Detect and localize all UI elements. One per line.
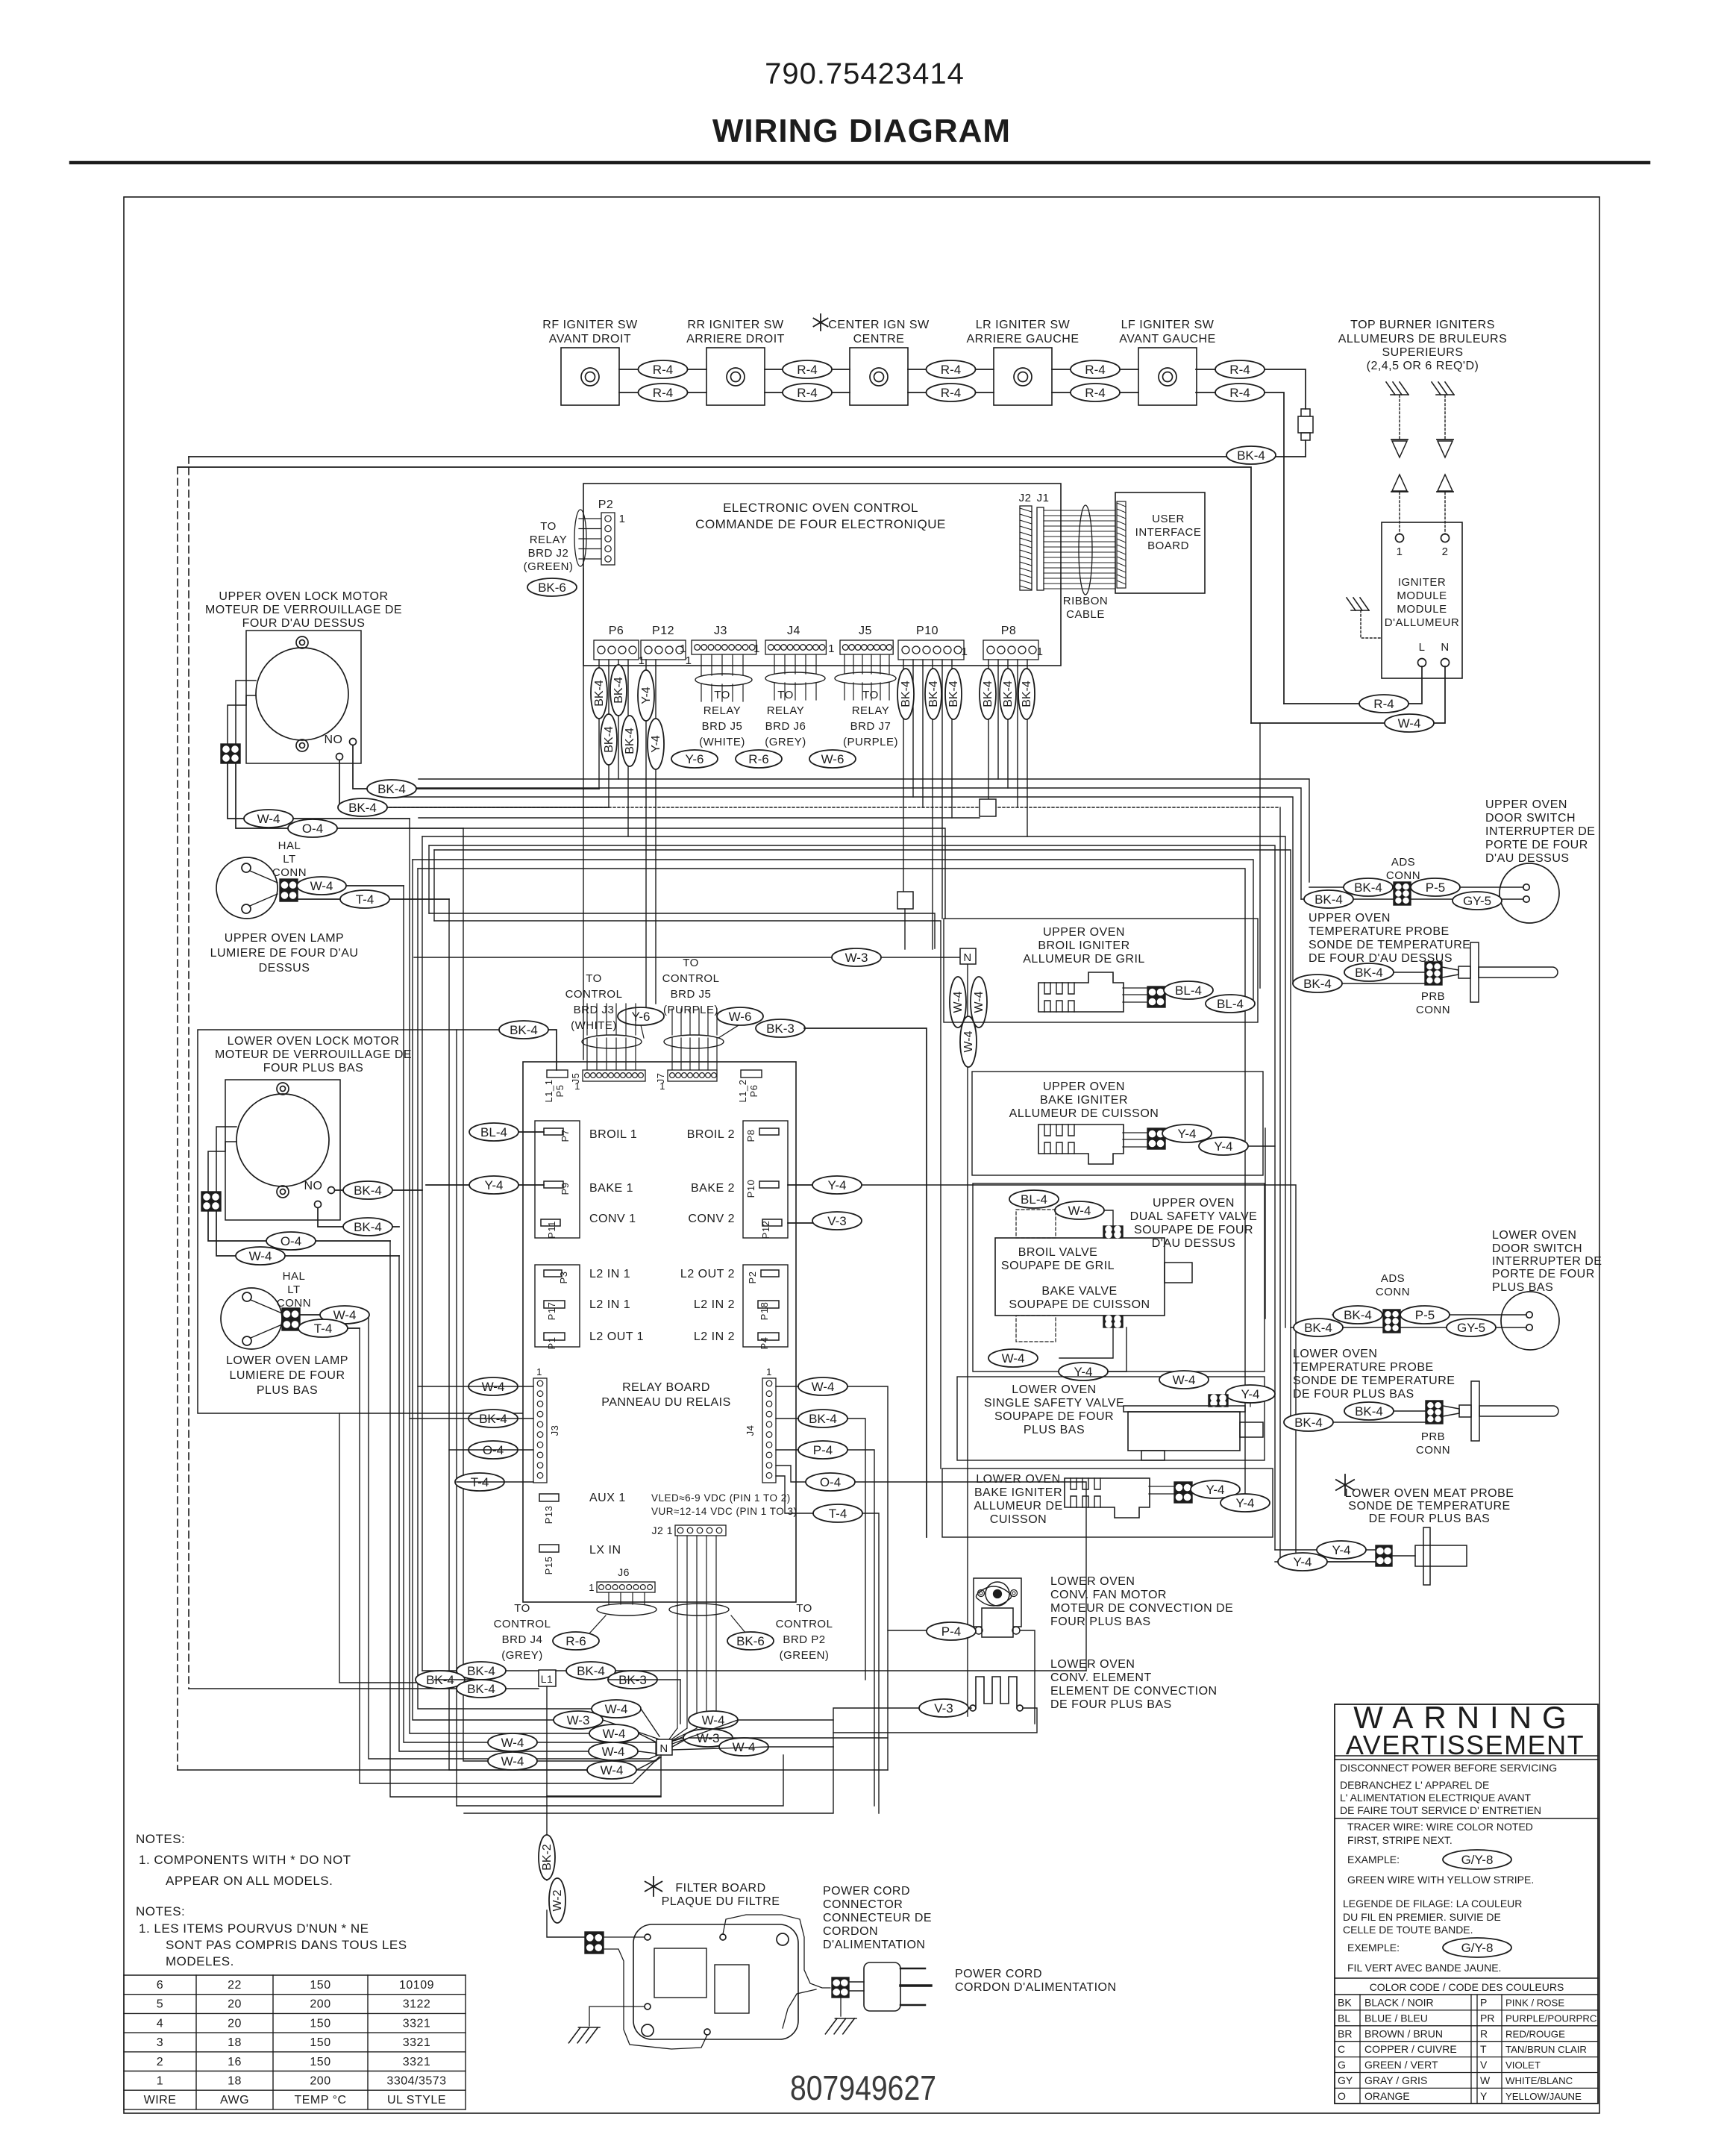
asterisk marker for CENTER IGN SW: [813, 314, 827, 331]
svg-text:UPPER OVEN: UPPER OVEN: [1153, 1197, 1235, 1210]
upper broil igniter enclosure: [944, 919, 1258, 1022]
svg-text:(GREEN): (GREEN): [780, 1649, 830, 1662]
svg-text:150: 150: [310, 2017, 330, 2030]
svg-text:G/Y-8: G/Y-8: [1461, 1853, 1494, 1867]
label BK-4 ADS lower a: [1333, 1306, 1382, 1324]
svg-text:R: R: [1480, 2027, 1488, 2039]
svg-text:PORTE DE FOUR: PORTE DE FOUR: [1492, 1268, 1595, 1280]
label UPPER OVEN BAKE IGNITER: [1009, 1080, 1159, 1120]
label R-4 lower 5: [1215, 384, 1265, 401]
label BK-4 wire P8 c: [1018, 669, 1035, 719]
svg-text:VUR≈12-14 VDC (PIN 1 TO 3): VUR≈12-14 VDC (PIN 1 TO 3): [651, 1506, 797, 1517]
svg-text:BROIL VALVE: BROIL VALVE: [1018, 1246, 1098, 1259]
label P-5 lower: [1400, 1306, 1450, 1324]
wire igniter switch row upper segment 5: [1196, 369, 1306, 409]
label W-4 n1: [592, 1700, 641, 1718]
wire relay right bus links: [847, 1386, 1086, 1813]
svg-text:4: 4: [157, 2017, 163, 2030]
switch LR IGNITER SW: [966, 319, 1079, 405]
svg-text:SOUPAPE DE FOUR: SOUPAPE DE FOUR: [1134, 1224, 1253, 1236]
svg-text:3321: 3321: [403, 2056, 431, 2068]
svg-text:18: 18: [228, 2036, 242, 2049]
svg-text:BK-4: BK-4: [377, 782, 406, 796]
svg-text:RED/ROUGE: RED/ROUGE: [1505, 2028, 1565, 2039]
svg-text:ELECTRONIC OVEN CONTROL: ELECTRONIC OVEN CONTROL: [723, 501, 918, 515]
title underline rule: [71, 161, 1649, 165]
svg-text:USER: USER: [1152, 513, 1185, 525]
label BK-4 J3 pin3: [469, 1410, 518, 1427]
svg-text:INTERFACE: INTERFACE: [1135, 526, 1202, 539]
label Y-4 meat probe b: [1278, 1553, 1327, 1571]
lower oven conv element R1: [970, 1677, 1023, 1711]
svg-text:R-4: R-4: [797, 363, 817, 377]
connector J2 ribbon (hatched): [1020, 506, 1032, 590]
svg-text:LF IGNITER SW: LF IGNITER SW: [1121, 319, 1215, 331]
svg-text:UPPER OVEN: UPPER OVEN: [1043, 926, 1125, 939]
connector ADS upper (2x3): [1394, 882, 1411, 905]
label LOWER OVEN SINGLE SAFETY VALVE: [984, 1383, 1124, 1436]
svg-text:R-4: R-4: [1085, 363, 1105, 377]
wires P2 to relay board J2: [574, 510, 601, 566]
svg-text:P4: P4: [759, 1337, 770, 1350]
label BL-4 valve: [1009, 1190, 1059, 1208]
ground power cord: [825, 1998, 856, 2034]
wire long horizontal bus BK-4 (top): [189, 456, 1306, 457]
connector L1_2 P6: [737, 1070, 762, 1102]
svg-text:BAKE 1: BAKE 1: [589, 1182, 633, 1195]
wire P8 pin drops: [988, 660, 1027, 836]
wire BK-4 PRB lower b: [1285, 1421, 1426, 1423]
wire bundle L1 feed down: [422, 836, 423, 1671]
svg-text:O-4: O-4: [820, 1475, 841, 1489]
svg-text:BROIL IGNITER: BROIL IGNITER: [1038, 939, 1129, 952]
wire GY-5 ADS lower: [1400, 1327, 1526, 1328]
label TO RELAY BRD J7 (PURPLE): [843, 689, 898, 748]
svg-text:LOWER OVEN: LOWER OVEN: [1012, 1383, 1096, 1396]
svg-text:L2 IN 1: L2 IN 1: [589, 1268, 630, 1280]
svg-text:DE FAIRE TOUT SERVICE D' E: DE FAIRE TOUT SERVICE D' ENTRETIEN: [1340, 1804, 1541, 1816]
label Y-4 valve out: [1059, 1363, 1108, 1380]
label BK-4 wire P6 pin1: [591, 668, 607, 719]
svg-text:TOP BURNER IGNITERS: TOP BURNER IGNITERS: [1350, 319, 1495, 331]
label R-6 below relay: [553, 1632, 599, 1650]
wire filter conn loop under board: [604, 1949, 707, 2049]
wire filter left tap: [589, 2007, 645, 2026]
svg-text:SOUPAPE DE GRIL: SOUPAPE DE GRIL: [1001, 1260, 1115, 1272]
svg-text:R-4: R-4: [941, 363, 961, 377]
label BK-4 L1 d: [566, 1662, 615, 1680]
svg-text:RF IGNITER SW: RF IGNITER SW: [542, 319, 638, 331]
label NOTES block 2: [136, 1904, 407, 1968]
svg-text:WIRE: WIRE: [144, 2094, 177, 2106]
svg-text:W-4: W-4: [602, 1745, 625, 1759]
connector lower lamp (2x2): [282, 1308, 300, 1330]
connector filter board (2x2): [585, 1932, 604, 1954]
svg-text:BK-3: BK-3: [766, 1022, 795, 1036]
svg-text:P1: P1: [546, 1337, 557, 1350]
svg-text:FIL VERT AVEC BANDE JA: FIL VERT AVEC BANDE JAUNE.: [1347, 1962, 1501, 1974]
cable bundle into relay J5: [582, 1004, 644, 1070]
label LOWER OVEN TEMPERATURE PROBE: [1293, 1348, 1455, 1401]
svg-text:WHITE/BLANC: WHITE/BLANC: [1505, 2075, 1573, 2086]
svg-text:R-4: R-4: [653, 363, 673, 377]
wire left bus vertical B: [177, 467, 178, 1770]
wire L1 down to BK-2: [546, 1686, 548, 1880]
svg-text:PANNEAU DU RELAIS: PANNEAU DU RELAIS: [601, 1396, 731, 1409]
svg-text:BR: BR: [1338, 2027, 1352, 2039]
svg-text:CONN: CONN: [272, 866, 307, 879]
svg-text:FOUR PLUS BAS: FOUR PLUS BAS: [1050, 1616, 1151, 1628]
svg-text:16: 16: [228, 2056, 242, 2068]
svg-text:D'ALIMENTATION: D'ALIMENTATION: [823, 1939, 925, 1951]
svg-text:W-4: W-4: [603, 1727, 626, 1741]
connector J1 ribbon bar: [1037, 507, 1044, 590]
label BK-2 vertical: [539, 1835, 555, 1880]
svg-text:LEGENDE DE FILAGE: LA COULEU: LEGENDE DE FILAGE: LA COULEUR: [1343, 1898, 1522, 1910]
label W-4 J3 pin1: [469, 1377, 518, 1395]
lower oven lamp L2: [221, 1288, 282, 1349]
svg-text:1: 1: [659, 1080, 665, 1092]
wire bundle lower motor O-4 down: [390, 1241, 661, 1797]
svg-text:ADS: ADS: [1391, 856, 1415, 869]
svg-text:L2 IN 1: L2 IN 1: [589, 1298, 630, 1311]
label P-5 upper: [1411, 878, 1460, 896]
wire W-4 to valve conn: [1104, 1210, 1113, 1227]
pin 2 igniter module: [1441, 534, 1450, 559]
svg-text:22: 22: [228, 1979, 242, 1992]
svg-text:RELAY: RELAY: [530, 534, 568, 546]
svg-text:SOUPAPE DE CUISSON: SOUPAPE DE CUISSON: [1009, 1298, 1150, 1311]
svg-text:10109: 10109: [399, 1979, 434, 1992]
connector J7 (relay board): [655, 1070, 717, 1092]
svg-text:W-3: W-3: [567, 1713, 590, 1727]
label BK-4 wire P8 b: [1000, 669, 1016, 719]
wire mid horizontal bus 9: [434, 850, 1291, 1422]
connector J6 (relay board): [589, 1566, 655, 1593]
svg-text:BK-4: BK-4: [809, 1412, 837, 1426]
label BK-4 L1 c: [457, 1680, 506, 1698]
wire bottom horizontal 2420: [457, 1755, 783, 1806]
svg-text:PRB: PRB: [1421, 1430, 1445, 1443]
wire BK-4 b stub: [434, 1679, 483, 1680]
wire bundle lower lamp W-4 down: [369, 1315, 658, 1759]
svg-text:LOWER OVEN: LOWER OVEN: [1050, 1658, 1135, 1671]
svg-text:C: C: [1338, 2043, 1345, 2055]
svg-text:BK-4: BK-4: [1237, 448, 1265, 463]
svg-text:807949627: 807949627: [790, 2068, 936, 2107]
wire mid horizontal bus 3: [386, 797, 1293, 983]
svg-text:R-4: R-4: [1085, 386, 1105, 400]
arrow down electrode 1: [1391, 440, 1408, 457]
relay board outline: [523, 1062, 796, 1602]
svg-text:CONNECTEUR DE: CONNECTEUR DE: [823, 1912, 932, 1924]
svg-text:TEMP °C: TEMP °C: [294, 2094, 346, 2106]
svg-text:SOUPAPE DE FOUR: SOUPAPE DE FOUR: [994, 1410, 1114, 1423]
label BK-4 J4 pin2: [798, 1410, 847, 1427]
lower door switch S2: [1501, 1292, 1559, 1350]
svg-text:BAKE VALVE: BAKE VALVE: [1041, 1285, 1117, 1298]
svg-text:NOTES:: NOTES:: [136, 1904, 185, 1918]
svg-text:1. LES ITEMS POURVUS D'NUN *: 1. LES ITEMS POURVUS D'NUN * NE: [139, 1921, 369, 1936]
wire bundle upper motor W-4 down: [410, 819, 658, 1743]
wire bundle J7 row feed: [433, 850, 435, 921]
user interface board: [1115, 492, 1205, 593]
svg-text:NOTES:: NOTES:: [136, 1832, 185, 1846]
svg-text:RELAY: RELAY: [704, 704, 742, 717]
svg-text:P7: P7: [560, 1130, 571, 1142]
svg-text:BL-4: BL-4: [1217, 997, 1244, 1011]
label W-4 upper lock motor: [244, 810, 293, 828]
svg-text:(WHITE): (WHITE): [699, 736, 745, 748]
svg-text:AVERTISSEMENT: AVERTISSEMENT: [1346, 1730, 1585, 1760]
svg-text:V: V: [1480, 2059, 1488, 2071]
svg-text:BLACK / NOIR: BLACK / NOIR: [1364, 1997, 1434, 2009]
svg-text:20: 20: [228, 1998, 242, 2011]
svg-text:P11: P11: [546, 1221, 557, 1239]
label NOTES block 1: [136, 1832, 351, 1888]
label TOP BURNER IGNITERS heading: [1338, 319, 1508, 372]
wire bundle row to relay J5 area: [429, 913, 935, 948]
svg-text:BRD J2: BRD J2: [528, 547, 569, 560]
label TO RELAY BRD J5 (WHITE): [699, 689, 745, 748]
svg-text:N: N: [1441, 641, 1449, 654]
label W-3 mid: [832, 948, 881, 966]
wire mid horizontal bus 4b: [1279, 807, 1281, 1562]
label BK-4 upper lock motor b: [338, 798, 387, 816]
pin 1 igniter module: [1396, 534, 1404, 559]
label TO CONTROL BRD J4 (GREY): [494, 1602, 551, 1662]
pin P10: [745, 1180, 779, 1198]
label W-6 above relay: [717, 1007, 763, 1025]
cable bundle J4 to relay J6: [765, 655, 825, 700]
svg-text:MOTEUR DE CONVECTION DE: MOTEUR DE CONVECTION DE: [1050, 1602, 1233, 1615]
label LEGENDE paragraph: [1343, 1898, 1522, 1936]
svg-text:1: 1: [619, 513, 626, 525]
svg-text:3: 3: [157, 2036, 163, 2049]
label V-3 element: [919, 1699, 968, 1717]
svg-text:P18: P18: [759, 1302, 770, 1321]
pin L igniter module: [1418, 641, 1426, 667]
svg-text:W-4: W-4: [257, 812, 281, 826]
label T-4 J4 pin7: [813, 1504, 862, 1522]
svg-text:1: 1: [686, 654, 692, 667]
svg-text:1: 1: [753, 642, 760, 655]
label Y-4 bake1: [469, 1176, 518, 1194]
pin P12: [760, 1219, 782, 1239]
svg-text:R-4: R-4: [1229, 363, 1250, 377]
relay output connector block left (P7 P9 P11): [535, 1121, 580, 1238]
svg-text:Y-4: Y-4: [650, 735, 662, 753]
wire NO contact to BK-4 bus upper: [353, 745, 599, 789]
svg-text:(GREY): (GREY): [501, 1649, 543, 1662]
svg-text:Y-4: Y-4: [640, 686, 653, 704]
svg-text:P8: P8: [1001, 625, 1017, 637]
wire mid horizontal bus 4a: [363, 807, 1280, 808]
wire Y-4 valve: [1108, 1327, 1126, 1371]
label P-4 J4 pin3: [798, 1441, 847, 1459]
svg-text:P2: P2: [747, 1272, 758, 1284]
connector J4 (relay board): [745, 1366, 776, 1483]
igniter upper broil: [1038, 972, 1124, 1012]
label BK-3 L1: [608, 1671, 657, 1689]
label UPPER OVEN LOCK MOTOR: [205, 590, 402, 630]
svg-text:BL-4: BL-4: [480, 1125, 507, 1139]
label BK-6: [527, 578, 577, 596]
svg-text:Y-4: Y-4: [1215, 1139, 1233, 1154]
svg-text:V-3: V-3: [934, 1701, 953, 1715]
connector P12: [652, 625, 674, 637]
svg-text:GY-5: GY-5: [1457, 1321, 1485, 1335]
svg-text:P5: P5: [554, 1085, 565, 1098]
cable bundle relay J2 out: [666, 1536, 746, 1743]
label O-4 lower lock motor: [266, 1232, 316, 1250]
label Y-4 wire P12 pin1: [638, 670, 654, 721]
lower oven lock motor enclosure: [198, 1030, 522, 1413]
svg-text:1: 1: [828, 642, 835, 655]
wire filter bottom-right pad curve: [783, 1989, 816, 2028]
wire left bus vertical A: [188, 457, 189, 1689]
wire lower NO to BK-4: [335, 1189, 422, 1191]
svg-text:W-4: W-4: [952, 991, 965, 1013]
svg-text:BK-4: BK-4: [624, 728, 636, 754]
svg-text:LOWER OVEN: LOWER OVEN: [1293, 1348, 1377, 1360]
wire lower NO2 to BK-4: [318, 1208, 399, 1227]
connector P2: [598, 498, 626, 565]
label RELAY BOARD: [601, 1381, 731, 1409]
label LOWER OVEN MEAT PROBE: [1345, 1487, 1514, 1525]
label W-4 n6: [488, 1752, 537, 1770]
L2 connector block right (P2 P18 P4): [743, 1265, 788, 1347]
svg-text:LOWER OVEN MEAT PROBE: LOWER OVEN MEAT PROBE: [1345, 1487, 1514, 1500]
lower single safety valve enclosure: [957, 1377, 1265, 1460]
wire NO contact 2 to BK-4 bus: [339, 760, 609, 807]
electronic oven control board outline: [583, 484, 1061, 666]
svg-text:P10: P10: [916, 625, 938, 637]
svg-text:W-4: W-4: [249, 1249, 272, 1263]
label Y-4 meat probe a: [1317, 1541, 1366, 1559]
wire P-5 ADS to switch: [1411, 886, 1523, 888]
svg-text:TO: TO: [586, 972, 602, 985]
label R-4 lower 2: [783, 384, 832, 401]
svg-text:LOWER OVEN LAMP: LOWER OVEN LAMP: [226, 1354, 348, 1367]
svg-text:LT: LT: [287, 1283, 300, 1296]
label DEBRANCHEZ paragraph: [1340, 1779, 1541, 1816]
connector valve bottom (2x2): [1103, 1316, 1123, 1327]
wire BK-4 to ADS: [1309, 886, 1394, 888]
svg-text:BK-4: BK-4: [612, 677, 625, 704]
label W-4 lower lock motor: [236, 1247, 285, 1265]
label Y-4 lower bake b: [1220, 1494, 1270, 1512]
svg-text:W-4: W-4: [812, 1380, 835, 1394]
wires broil igniter to connector: [1123, 988, 1147, 1002]
svg-text:CONN: CONN: [1416, 1004, 1450, 1016]
wire P10 pin drops: [903, 660, 952, 949]
wire ground to igniter module: [1361, 610, 1382, 638]
label BK-3 above relay: [756, 1019, 805, 1037]
svg-text:CONV. FAN MOTOR: CONV. FAN MOTOR: [1050, 1589, 1167, 1601]
svg-text:LOWER OVEN: LOWER OVEN: [1492, 1229, 1576, 1242]
meat probe RT3: [1392, 1527, 1467, 1585]
svg-text:1: 1: [574, 1080, 580, 1092]
svg-text:TO: TO: [714, 689, 730, 701]
cable bundle J3 to relay J5: [695, 655, 752, 701]
svg-text:Y-4: Y-4: [1294, 1555, 1312, 1569]
label LOWER OVEN DOOR SWITCH: [1492, 1229, 1602, 1294]
wire BK-4 PRB lead b: [1293, 983, 1425, 984]
wire BK-4 lower b: [1291, 1327, 1383, 1328]
connector lower lock motor (2x2): [201, 1192, 221, 1211]
svg-text:BRD J5: BRD J5: [671, 988, 712, 1001]
label LOWER OVEN CONV ELEMENT: [1050, 1658, 1218, 1711]
svg-text:GRAY / GRIS: GRAY / GRIS: [1364, 2074, 1427, 2086]
svg-text:BAKE IGNITER: BAKE IGNITER: [974, 1486, 1062, 1499]
svg-text:INTERRUPTER DE: INTERRUPTER DE: [1492, 1255, 1602, 1268]
svg-text:J3: J3: [549, 1425, 560, 1436]
wire igniter switch row upper segment 2: [765, 369, 850, 370]
igniter upper bake: [1038, 1125, 1124, 1164]
label O-4 J4 pin5: [806, 1473, 855, 1491]
wire P-4 to fan motor: [888, 1630, 976, 1631]
svg-text:ELEMENT DE CONVECTION: ELEMENT DE CONVECTION: [1050, 1685, 1218, 1698]
svg-text:BK-4: BK-4: [982, 681, 994, 707]
svg-text:W-4: W-4: [973, 991, 985, 1013]
label UPPER OVEN DUAL SAFETY VALVE: [1130, 1197, 1258, 1250]
svg-text:2: 2: [1442, 545, 1449, 558]
svg-text:DUAL SAFETY VALVE: DUAL SAFETY VALVE: [1130, 1210, 1258, 1223]
svg-text:MODELES.: MODELES.: [166, 1954, 234, 1968]
pin N igniter module: [1441, 641, 1449, 667]
svg-text:AVANT DROIT: AVANT DROIT: [549, 333, 631, 345]
svg-text:DOOR SWITCH: DOOR SWITCH: [1492, 1242, 1582, 1255]
svg-text:BK-4: BK-4: [1344, 1308, 1372, 1322]
svg-text:1: 1: [639, 654, 645, 667]
svg-text:P-4: P-4: [941, 1624, 961, 1639]
svg-text:Y-6: Y-6: [686, 752, 704, 766]
svg-text:BK-4: BK-4: [1314, 892, 1343, 907]
pin P1: [544, 1333, 565, 1349]
svg-text:CORDON D'ALIMENTATION: CORDON D'ALIMENTATION: [955, 1981, 1117, 1994]
svg-text:W-3: W-3: [845, 951, 868, 965]
svg-text:BK-4: BK-4: [348, 801, 377, 815]
svg-text:Y-4: Y-4: [1206, 1483, 1225, 1497]
wire mid horizontal bus 1: [419, 779, 1309, 882]
label BK-4 lower lock motor b: [343, 1218, 392, 1236]
svg-text:CONV. ELEMENT: CONV. ELEMENT: [1050, 1671, 1152, 1684]
wire lower motor conn down O-4: [208, 1211, 390, 1241]
label ADS CONN lower: [1376, 1272, 1410, 1298]
wire igniter switch row lower segment 4: [1052, 392, 1138, 393]
svg-text:W-4: W-4: [605, 1702, 628, 1716]
lower oven lock motor box: [225, 1080, 340, 1220]
svg-text:T: T: [1480, 2043, 1487, 2055]
label ADS CONN upper: [1386, 856, 1420, 882]
svg-text:BK-2: BK-2: [541, 1844, 554, 1871]
wire bundle upper motor O-4 down: [463, 828, 656, 1761]
label W-4 n4: [488, 1733, 537, 1751]
label W-3 n2: [554, 1711, 603, 1729]
svg-text:TAN/BRUN CLAIR: TAN/BRUN CLAIR: [1505, 2044, 1587, 2055]
svg-text:Y-4: Y-4: [1236, 1496, 1255, 1510]
connector J4 (EOC): [787, 625, 800, 637]
temperature probe lower RT2: [1443, 1381, 1558, 1441]
power cord plug P1: [849, 1962, 931, 2011]
wire BK-4 to PRB lower: [1344, 1410, 1426, 1412]
svg-text:L2 IN 2: L2 IN 2: [694, 1298, 735, 1311]
wire BK-4 lower lead: [1301, 898, 1394, 900]
svg-text:CONNECTOR: CONNECTOR: [823, 1898, 903, 1911]
cable bundle J5 to relay J7: [835, 655, 896, 700]
svg-text:LUMIERE DE FOUR: LUMIERE DE FOUR: [229, 1369, 345, 1382]
